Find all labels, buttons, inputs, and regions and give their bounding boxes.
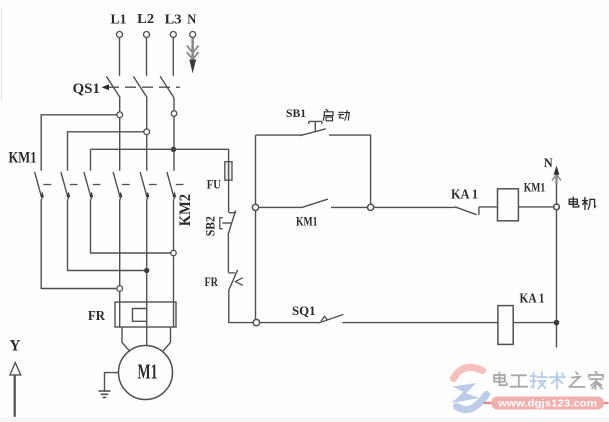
node N rail upper ring: [554, 204, 560, 210]
wire L1 drop to QS1: [119, 38, 121, 76]
wire FR to motor left lead: [122, 327, 130, 352]
svg-text:FR: FR: [205, 274, 219, 289]
wire branch to KM1 contact 3 and control feed: [91, 149, 229, 161]
svg-text:KA 1: KA 1: [520, 291, 545, 306]
wire FR to motor right lead: [163, 327, 171, 352]
switch QS1 blade 3: [160, 76, 174, 98]
wire QS1 p2 lower stub: [146, 98, 148, 129]
label dianji (motor): [569, 197, 579, 207]
node QS1 p2 tap to KM1-2: [144, 129, 150, 135]
wire KM1 pole1 output to node A: [41, 199, 117, 288]
thermal overload FR box: [115, 302, 176, 327]
wire KM1 pole3 output to node C: [91, 199, 171, 253]
star Y marker arrow at far left: [14, 375, 16, 417]
node QS1 p3 terminal: [171, 111, 177, 117]
svg-text:M1: M1: [138, 359, 158, 383]
wire SB1 branch top right: [329, 135, 371, 204]
wire N stub arrow down: [187, 38, 199, 60]
wire branch to KM1 contact 2: [68, 132, 144, 171]
svg-text:Y: Y: [10, 337, 21, 354]
watermark url pill: [484, 402, 609, 404]
svg-text:L1: L1: [111, 12, 127, 27]
wire KA1 coil to N rail: [513, 322, 554, 324]
svg-text:KM2: KM2: [177, 194, 194, 226]
limit switch SQ1 (NO): [319, 314, 344, 323]
svg-text:L2: L2: [137, 12, 154, 27]
label qidong (start): [323, 110, 333, 121]
switch QS1 blade 1: [106, 76, 120, 98]
wire SQ1 to KA1 coil: [342, 322, 498, 324]
wire FR passthrough right: [173, 302, 175, 327]
contactor contact KM1 pole 3: [84, 172, 101, 199]
svg-text:KM1: KM1: [296, 214, 318, 228]
svg-text:SB2: SB2: [203, 216, 218, 236]
wire FU to SB2: [228, 180, 230, 212]
wire KM1 coil to N rail: [518, 206, 553, 208]
coil KM1: [498, 189, 519, 221]
switch QS1 linkage dashed line with arrow: [108, 86, 180, 88]
wire L2 drop to QS1: [146, 38, 148, 76]
wire rung to KM1 aux: [259, 206, 302, 208]
wire N rail: [556, 184, 558, 348]
wire SB2 to FR contact: [227, 235, 229, 272]
FR heater element notch: [133, 302, 147, 327]
wire SB1 branch top left: [256, 134, 303, 136]
wire KM1 pole2 output to node B: [68, 199, 144, 270]
contactor contact KM1 pole 1: [35, 172, 52, 199]
svg-text:SQ1: SQ1: [292, 303, 316, 318]
wire KM2 pole3 output down to FR: [173, 199, 175, 302]
wire FR passthrough left: [119, 302, 121, 327]
pushbutton SB1 (NO start): [300, 121, 326, 135]
node QS1 p1 terminal / tap to KM1-1: [117, 112, 123, 118]
thermal contact FR (NC): [228, 270, 242, 289]
wire KA1 contact to KM1 coil: [479, 206, 498, 208]
node left-rail bottom: [253, 319, 259, 325]
node A junction on KM2 col1: [117, 286, 123, 292]
contactor contact KM2 pole 3: [167, 172, 184, 199]
wire KM2 pole2 output down to FR: [146, 199, 148, 302]
contact KM1 auxiliary (NO): [302, 199, 328, 207]
wire rung to KA1 contact: [374, 206, 455, 208]
svg-text:L3: L3: [165, 12, 182, 27]
wire left rail: [255, 135, 257, 319]
svg-text:SB1: SB1: [286, 108, 306, 120]
node B junction on KM2 col2: [144, 268, 149, 273]
switch QS1 blade 2: [133, 76, 147, 98]
wire p2 down to KM2 contact 2: [146, 135, 148, 171]
wire p1 down to KM2 contact 1: [119, 118, 121, 171]
fuse FU: [225, 162, 232, 181]
wire motor frame to earth: [105, 373, 119, 391]
ground symbol: [99, 391, 111, 397]
node C junction on KM2 col3: [171, 250, 176, 255]
wire KM1 aux to node: [331, 206, 368, 208]
svg-text:KM1: KM1: [524, 180, 546, 194]
svg-text:FR: FR: [88, 309, 106, 324]
pushbutton SB2 (NC stop): [220, 210, 236, 235]
wire KM2 pole1 output down to FR: [119, 199, 121, 302]
svg-text:KA 1: KA 1: [451, 188, 478, 203]
wire FR contact down and to left rail node: [229, 289, 253, 323]
node rung right ring: [368, 204, 374, 210]
svg-text:QS1: QS1: [73, 81, 101, 97]
wire QS1 p1 lower stub: [119, 98, 121, 112]
N rail arrow up: [552, 172, 561, 184]
node L1 terminal: [117, 32, 123, 38]
svg-text:www.dgjs123.com: www.dgjs123.com: [497, 397, 597, 409]
coil KA1: [498, 306, 513, 345]
node rung left ring: [252, 204, 258, 210]
contactor contact KM2 pole 1: [113, 172, 130, 199]
wire FR to motor middle lead: [146, 327, 148, 346]
node N rail bottom junction: [554, 320, 560, 326]
motor M1 circle: [119, 346, 173, 400]
svg-text:FU: FU: [207, 176, 221, 191]
watermark logo swoosh: [452, 367, 487, 409]
node L2 terminal: [144, 32, 150, 38]
contactor contact KM2 pole 2: [140, 172, 157, 199]
wire branch to KM1 contact 1: [41, 115, 117, 171]
contactor contact KM1 pole 2: [61, 172, 78, 199]
node N terminal: [190, 32, 196, 38]
wire p3 down to junction: [173, 116, 175, 170]
svg-text:N: N: [187, 12, 196, 27]
svg-text:N: N: [544, 156, 553, 170]
node L3 terminal: [170, 32, 176, 38]
wire QS1 p3 lower stub: [173, 98, 175, 111]
edge artifact left and bottom strip: [0, 417, 609, 422]
svg-text:KM1: KM1: [9, 150, 37, 167]
wire L3 drop to QS1: [172, 38, 174, 76]
node junction p3 to control feed: [171, 147, 176, 152]
wire bottom rung left: [260, 322, 320, 324]
contact KA1 (NO): [455, 207, 479, 215]
watermark site name: [494, 372, 507, 385]
